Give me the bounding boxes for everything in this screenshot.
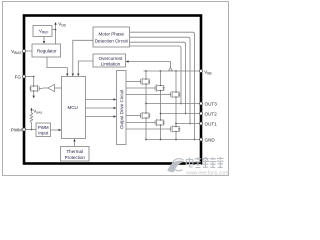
svg-text:Regulator: Regulator (37, 48, 57, 53)
svg-text:GND: GND (205, 137, 216, 142)
svg-text:PWM: PWM (11, 128, 22, 133)
svg-text:FG: FG (15, 75, 22, 80)
svg-text:Protection: Protection (65, 155, 86, 160)
svg-text:MCU: MCU (68, 105, 78, 110)
svg-text:OUT1: OUT1 (205, 121, 218, 126)
svg-text:Detection Circuit: Detection Circuit (95, 39, 129, 44)
svg-text:Overcurrent: Overcurrent (99, 56, 124, 61)
svg-text:Thermal: Thermal (66, 149, 83, 154)
svg-text:VBIAS: VBIAS (11, 49, 21, 55)
svg-text:Limitation: Limitation (101, 61, 121, 66)
svg-text:VBB: VBB (204, 69, 211, 75)
svg-text:Motor Phase: Motor Phase (98, 32, 124, 37)
svg-text:VBIAS: VBIAS (33, 109, 42, 115)
svg-text:OUT2: OUT2 (205, 111, 218, 116)
svg-text:Input: Input (38, 130, 49, 135)
svg-text:PWM: PWM (38, 125, 49, 130)
svg-text:Output Drive Circuit: Output Drive Circuit (119, 89, 124, 129)
svg-text:VDD: VDD (58, 21, 66, 27)
svg-text:www.elecfans.com: www.elecfans.com (186, 170, 228, 176)
svg-text:OUT3: OUT3 (205, 101, 218, 106)
